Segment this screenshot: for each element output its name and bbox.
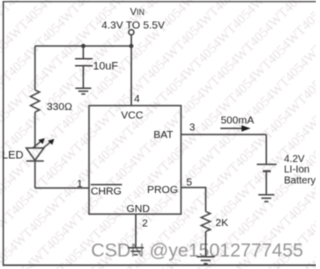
frame border bottom [3, 264, 316, 266]
wire resistor to LED [34, 112, 36, 148]
wire LED to corner [34, 161, 36, 188]
frame border top [3, 1, 316, 3]
wire pin 2 GND [135, 214, 137, 248]
svg-text:2: 2 [142, 217, 148, 229]
wire battery to ground [265, 171, 267, 195]
wire pin 5 PROG [181, 188, 206, 212]
wire 2K to ground [205, 232, 207, 257]
LED D1 [26, 148, 44, 160]
IC U1 charger box [89, 106, 181, 215]
terminal VIN [129, 30, 134, 35]
svg-text:4: 4 [134, 93, 140, 105]
ground under 2K [197, 256, 215, 258]
resistor R1 330 ohm [31, 90, 40, 112]
capacitor C1 lead top [82, 46, 84, 59]
svg-text:500mA: 500mA [221, 115, 254, 127]
ground under battery [258, 194, 274, 196]
battery BT1 plates [257, 163, 277, 165]
svg-text:2K: 2K [215, 217, 228, 229]
wire pin 3 BAT [181, 134, 266, 136]
svg-text:4.2V: 4.2V [284, 154, 305, 165]
node junction VIN/VCC [129, 44, 133, 48]
node junction capacitor [81, 44, 85, 48]
svg-text:GND: GND [127, 203, 151, 215]
svg-text:4.3V TO 5.5V: 4.3V TO 5.5V [102, 19, 165, 31]
ground pin 2 [128, 247, 144, 249]
svg-text:Battery: Battery [284, 176, 316, 187]
wire VIN terminal to junction [130, 35, 132, 46]
wire left rail down to resistor [34, 46, 36, 90]
frame border left [2, 2, 4, 266]
svg-text:LI-Ion: LI-Ion [284, 165, 310, 176]
svg-text:10uF: 10uF [93, 61, 118, 73]
ground under capacitor [75, 87, 91, 89]
LED emission arrows [33, 138, 55, 149]
500mA arrow [220, 127, 243, 129]
svg-text:VIN: VIN [130, 7, 144, 18]
wire pin 4 VCC [130, 46, 132, 106]
svg-text:PROG: PROG [147, 184, 178, 196]
CHRG overline [91, 184, 122, 186]
svg-text:CHRG: CHRG [91, 185, 122, 197]
svg-text:3: 3 [189, 122, 195, 134]
capacitor C1 10uF plates [75, 58, 93, 60]
capacitor C1 lead bottom [82, 66, 84, 88]
resistor R2 2K [201, 212, 210, 232]
wire to pin 1 [35, 187, 89, 189]
wire down to battery [265, 135, 267, 165]
svg-text:330Ω: 330Ω [47, 101, 73, 113]
svg-text:BAT: BAT [154, 129, 174, 141]
svg-text:1: 1 [77, 178, 83, 190]
wire top horizontal [35, 45, 131, 47]
svg-text:LED: LED [2, 150, 23, 162]
svg-text:VCC: VCC [121, 109, 144, 121]
svg-text:5: 5 [186, 176, 192, 188]
